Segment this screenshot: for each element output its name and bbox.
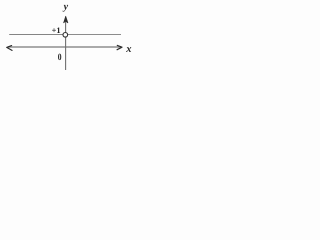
wire +1 level line left of circle xyxy=(9,34,63,36)
wire y-axis upper segment xyxy=(65,21,67,33)
background xyxy=(0,0,154,84)
y-axis up arrowhead xyxy=(64,16,68,23)
x-axis right arrowhead xyxy=(117,45,122,49)
node open circle at (0,1) xyxy=(63,33,68,38)
wire y-axis lower segment xyxy=(65,37,67,70)
svg-text:x: x xyxy=(125,44,131,55)
svg-text:+1: +1 xyxy=(52,26,61,35)
wire x-axis xyxy=(8,46,121,48)
wire +1 level line right of circle xyxy=(68,34,121,36)
svg-text:0: 0 xyxy=(58,52,62,63)
svg-text:y: y xyxy=(63,2,69,13)
x-axis left arrowhead xyxy=(7,46,12,51)
